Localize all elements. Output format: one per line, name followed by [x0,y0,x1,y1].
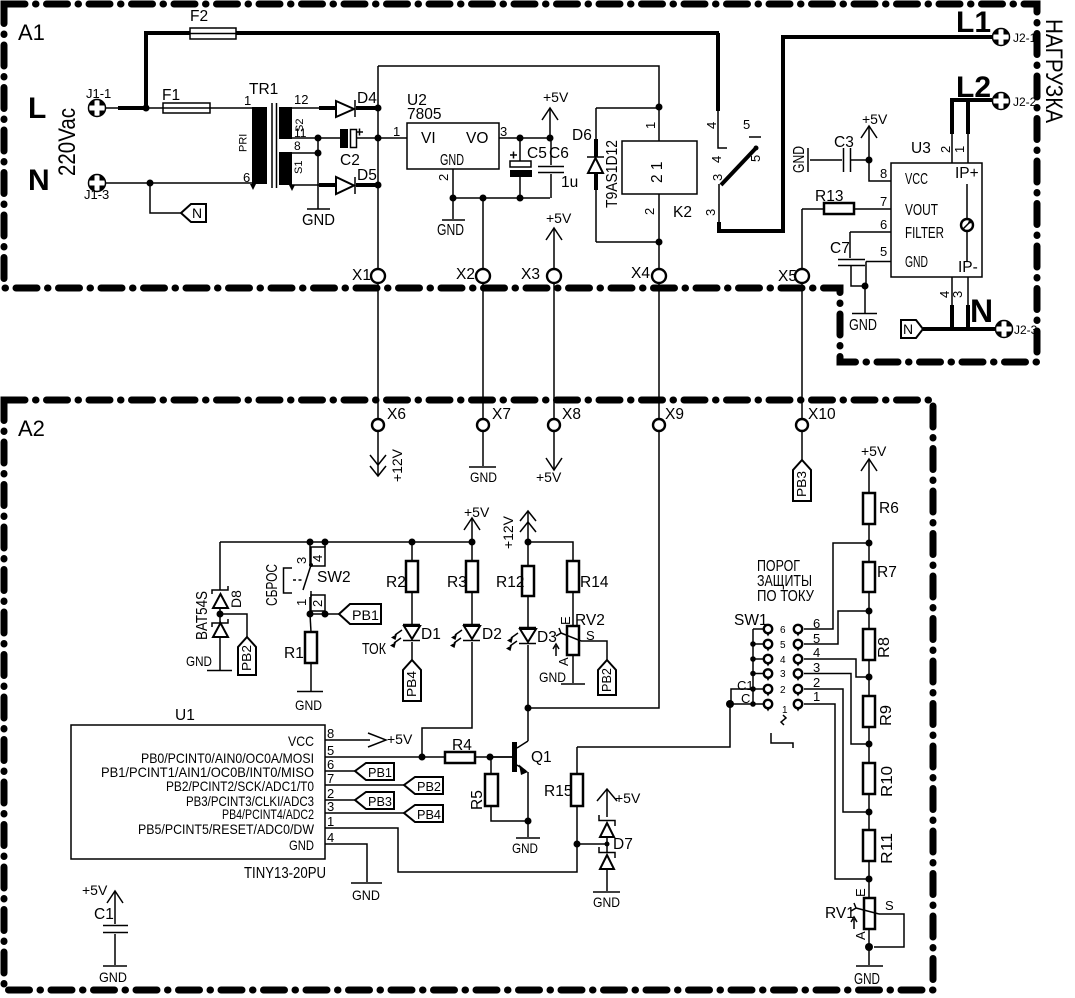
wire D2 to R4 node [422,642,472,757]
svg-text:PB5/PCINT5/RESET/ADC0/DW: PB5/PCINT5/RESET/ADC0/DW [138,821,315,837]
svg-text:IP+: IP+ [955,165,979,182]
U1 pin2 wire [325,799,355,801]
svg-text:7: 7 [327,771,334,786]
svg-text:GND: GND [593,894,620,910]
svg-text:PB4: PB4 [404,671,419,697]
+5V arrow at U2 output [549,109,551,138]
ground under X7 [482,431,484,466]
thick wire relay common to L1 output [719,37,993,231]
svg-text:X4: X4 [631,265,650,282]
svg-text:GND: GND [440,152,464,169]
svg-text:VI: VI [421,130,436,147]
svg-text:D2: D2 [482,626,502,643]
relay K2 contact pin4 [716,33,720,111]
svg-text:X3: X3 [521,266,540,283]
thick wire J2-2 to U3 IP+ pins [950,98,992,102]
svg-text:BAT54S: BAT54S [194,591,211,640]
ground at C3 [807,148,809,172]
resistor R6 [863,493,875,524]
resistor R10 [863,763,875,794]
LED D3 [527,596,529,627]
svg-text:GND: GND [352,887,380,903]
resistor R15 [576,747,578,774]
svg-text:1: 1 [952,146,967,153]
svg-text:ТОК: ТОК [362,641,386,658]
svg-text:5: 5 [880,244,887,259]
LED D2 [471,542,473,624]
svg-text:PB2: PB2 [599,668,614,692]
svg-text:1: 1 [643,122,658,129]
U1 pin4 ground [325,844,367,882]
svg-text:C1: C1 [94,906,114,923]
svg-text:2: 2 [642,208,657,215]
TR1 pin arrows [250,184,256,190]
svg-text:R2: R2 [386,574,406,591]
wire F2 to relay pin4 [236,31,719,35]
svg-text:4: 4 [310,555,325,562]
svg-text:D8: D8 [228,590,244,608]
diode D5 [319,183,336,187]
svg-text:PB3: PB3 [368,794,392,809]
svg-text:SW1: SW1 [734,612,768,629]
fuse F2 [190,28,236,39]
svg-text:PB1: PB1 [368,765,392,780]
flag PB2 at RV2 [598,660,616,695]
svg-text:+5V: +5V [464,504,490,520]
ground under TR1 [307,208,330,210]
svg-text:N: N [970,293,993,329]
svg-text:RV1: RV1 [825,905,855,922]
resistor R1 [310,614,311,632]
svg-text:1: 1 [327,814,334,829]
U2 pin1 wire [378,137,407,139]
svg-text:3: 3 [710,174,725,181]
connector J1-3 [88,174,106,192]
svg-text:2: 2 [813,675,820,690]
+5V down arrow under X8 [553,431,555,469]
U3 IP- pins 4,3 [952,277,968,305]
svg-text:GND: GND [539,669,566,685]
svg-text:GND: GND [791,146,808,173]
svg-text:8: 8 [880,166,887,181]
svg-text:5: 5 [743,117,750,132]
svg-text:VOUT: VOUT [905,202,938,219]
svg-text:5: 5 [780,640,786,651]
svg-text:N: N [28,164,50,197]
U3 internal sensor symbol [966,184,968,262]
svg-text:D7: D7 [613,836,633,853]
svg-text:8: 8 [294,139,301,153]
svg-text:220Vac: 220Vac [54,108,81,176]
U1 pin8 +5V arrow [325,739,370,741]
svg-text:1: 1 [813,689,820,704]
svg-text:L1: L1 [956,6,991,39]
svg-text:C5: C5 [527,145,547,162]
svg-text:7805: 7805 [407,106,441,123]
svg-text:6: 6 [880,217,887,232]
svg-text:PB4/PCINT4/ADC2: PB4/PCINT4/ADC2 [222,806,314,822]
dual diode D8 BAT54S [219,542,221,670]
U1 pin5 wire to R4 [325,756,445,758]
svg-text:3: 3 [703,209,718,216]
flag PB4 at D1 [411,642,413,660]
svg-text:1u: 1u [561,174,578,191]
wire TR1 pin12 to D4 [292,107,319,109]
svg-text:C2: C2 [340,152,360,169]
resistor R11 [863,830,875,861]
svg-text:U3: U3 [911,140,931,157]
svg-text:X7: X7 [492,406,511,423]
svg-text:R7: R7 [877,564,897,581]
svg-text:4: 4 [709,156,724,163]
flag PB2 at D8 [220,614,247,637]
svg-text:12: 12 [294,92,308,107]
node X2 [482,198,484,269]
svg-text:GND: GND [289,837,314,853]
LED D1 [411,592,413,624]
svg-text:TINY13-20PU: TINY13-20PU [244,865,326,882]
svg-text:C7: C7 [830,240,850,257]
svg-text:C6: C6 [549,145,569,162]
U2 pin2 to ground [452,169,454,219]
resistor R2 [411,542,413,561]
svg-text:A: A [556,657,571,666]
svg-text:+5V: +5V [387,731,413,747]
U3 pin5 GND wire [866,262,891,287]
svg-text:PRI: PRI [238,134,250,152]
svg-text:VCC: VCC [288,733,314,749]
svg-text:R9: R9 [878,705,895,726]
flag N [181,204,206,222]
U3 pin6 FILTER wire [850,232,891,258]
svg-text:S1: S1 [293,161,305,174]
svg-text:GND: GND [186,653,212,669]
transistor Q1 [490,756,512,758]
wire SW1 pos5 to R7/R8 [804,611,869,644]
svg-text:+12V: +12V [389,448,405,482]
svg-text:VCC: VCC [905,171,928,188]
svg-text:СБРОС: СБРОС [264,564,281,606]
+5V pull-up bus [220,541,472,543]
svg-text:GND: GND [302,212,335,229]
wire F1 to TR1 pin1 [210,107,252,109]
capacitor C6 1u [550,138,552,198]
svg-text:GND: GND [470,469,497,485]
svg-text:3: 3 [950,291,965,298]
svg-text:2: 2 [938,146,953,153]
svg-text:J1-1: J1-1 [86,86,111,101]
+12V down arrow under X6 [377,431,379,476]
svg-text:X6: X6 [387,406,406,423]
svg-text:R14: R14 [580,574,609,591]
connector J1-1 [88,99,106,117]
svg-text:GND: GND [905,254,928,271]
svg-text:7: 7 [880,194,887,209]
svg-text:J2-3: J2-3 [1014,323,1038,337]
connector J2-3 [995,320,1013,338]
svg-text:GND: GND [295,697,322,713]
svg-text:R6: R6 [879,500,899,517]
svg-text:N: N [903,321,913,337]
svg-text:1: 1 [244,93,251,108]
svg-text:+5V: +5V [82,882,108,898]
wire D3 down to collector node [527,645,529,708]
wire SW1 pos6 to R6/R7 [804,543,869,629]
svg-text:D1: D1 [421,626,441,643]
svg-text:4: 4 [813,645,820,660]
wire J1-1 to fuse F1 [105,107,118,109]
svg-text:3: 3 [327,799,334,814]
svg-text:T9AS1D12: T9AS1D12 [604,140,621,208]
diode D6 T9AS1D12 [596,108,659,242]
resistor R5 [490,757,492,774]
U1 pin6 wire [325,770,355,772]
capacitor C2 [318,137,340,139]
svg-text:IP-: IP- [958,259,978,276]
relay coil K2 [656,104,663,111]
flag PB1 at U1 [355,763,394,780]
svg-text:R11: R11 [879,833,896,864]
resistor R9 [863,696,875,727]
ground under RV2 [572,655,574,683]
ground under Q1 [527,821,529,837]
svg-text:PB3: PB3 [794,471,809,497]
wire X9 down to Q1 collector node [528,431,659,708]
svg-text:+5V: +5V [546,210,572,226]
svg-text:5: 5 [327,743,334,758]
U1 pin1 RESET wire [325,828,577,872]
connector J2-2 [992,92,1010,110]
ground under D7 [606,869,608,891]
svg-text:+12V: +12V [500,515,516,549]
svg-text:D5: D5 [357,167,377,184]
flag PB2 at U1 [404,777,443,794]
svg-text:6: 6 [327,757,334,772]
svg-text:3: 3 [780,669,786,680]
U3 pin8 VCC wire [866,157,873,164]
wire thick riser to F2 [146,33,190,108]
svg-text:X2: X2 [456,266,475,283]
svg-text:R10: R10 [879,766,896,797]
svg-text:2: 2 [780,685,786,696]
wire rectifier to K2 coil top [378,66,659,141]
svg-text:F2: F2 [190,8,208,25]
svg-text:GND: GND [854,971,880,988]
svg-text:8: 8 [327,726,334,741]
svg-text:U1: U1 [175,707,195,724]
svg-text:Q1: Q1 [531,749,552,766]
svg-text:+5V: +5V [861,443,887,459]
svg-text:R1: R1 [284,645,304,662]
svg-text:TR1: TR1 [249,81,278,98]
wire SW2 to PB1 and R1 [310,613,339,615]
svg-text:2: 2 [436,174,451,181]
U1 pin3 wire [325,812,404,814]
svg-text:PB2: PB2 [239,645,254,671]
svg-text:X9: X9 [665,406,684,423]
svg-text:J1-3: J1-3 [84,187,109,202]
svg-text:3: 3 [294,557,309,564]
svg-text:PB2/PCINT2/SCK/ADC1/T0: PB2/PCINT2/SCK/ADC1/T0 [166,778,314,794]
U2 pin3 wire [499,137,550,139]
wire TR1 center tap [292,138,318,209]
svg-text:+5V: +5V [615,790,641,806]
svg-text:2 1: 2 1 [649,161,666,183]
svg-text:A: A [853,931,868,940]
svg-text:+5V: +5V [862,111,888,127]
resistor R7 [863,562,875,592]
svg-text:1: 1 [782,705,788,716]
svg-text:НАГРУЗКА: НАГРУЗКА [1040,19,1067,123]
wire SW1 pos1 to R11/RV1 [804,704,869,879]
connector J2-1 [992,28,1010,46]
resistor R3 [466,561,478,592]
svg-text:4: 4 [327,830,334,845]
ground under R1 [310,663,312,691]
svg-text:6: 6 [780,625,786,636]
pushbutton SW2 [284,568,293,593]
svg-text:J2-2: J2-2 [1013,95,1037,109]
wire to N flag [150,183,181,213]
LED D1 emission arrows [394,630,402,643]
wire SW1 common to R15 [577,704,730,747]
svg-text:N: N [192,205,202,221]
svg-text:A1: A1 [18,20,45,45]
node X1 column wire [377,66,379,269]
capacitor C5 [519,138,521,198]
flag PB3 at U1 [355,792,394,809]
block A2 border [4,400,933,990]
block A1 border [4,4,1037,362]
ground under D8 [207,670,232,672]
svg-text:4: 4 [704,122,719,129]
resistor R14 [567,561,579,592]
svg-text:1: 1 [393,124,400,139]
thick wire to J2-3 [923,327,996,331]
svg-text:X8: X8 [562,406,581,423]
flag PB3 at X10 [801,431,803,460]
flag N output [901,320,923,338]
svg-text:GND: GND [512,840,538,856]
svg-text:GND: GND [437,222,464,239]
svg-text:E: E [558,616,573,625]
wire ground bus under U2 [453,197,550,199]
svg-text:A2: A2 [18,416,45,441]
fuse F1 [146,107,163,109]
flag PB1 [339,604,381,624]
svg-text:6: 6 [243,170,250,185]
svg-text:R15: R15 [544,783,572,800]
svg-text:S: S [586,628,595,643]
svg-text:D4: D4 [357,90,377,107]
ground under RV1 [856,965,883,967]
svg-text:R8: R8 [876,637,893,658]
svg-text:PB2: PB2 [417,779,441,794]
SW1 left bus [752,629,754,704]
svg-text:R5: R5 [469,790,486,810]
wire J1-3 to TR1 pin6 [105,182,252,184]
SW1 contacts [753,625,802,708]
svg-text:L: L [28,92,46,125]
svg-text:E: E [853,888,868,897]
svg-text:D3: D3 [537,629,557,646]
svg-text:K2: K2 [673,204,692,221]
+5V arrow at U3 [868,127,870,160]
diode D4 [319,106,336,110]
svg-text:PB4: PB4 [417,807,441,822]
flag PB4 at U1 [404,805,443,822]
svg-text:VO: VO [466,130,488,147]
svg-text:X1: X1 [352,267,371,284]
svg-text:2: 2 [310,600,325,607]
svg-text:S: S [885,898,894,913]
svg-text:3: 3 [500,124,507,139]
svg-text:GND: GND [99,969,127,985]
svg-text:D6: D6 [572,127,592,144]
relay K2 switch arm [721,148,756,185]
U1 pin7 wire [325,784,404,786]
wire TR1 pin5 to D5 [292,184,319,186]
wire SW1 pos2 to R10/R11 [804,689,869,812]
resistor R8 [863,629,875,660]
svg-text:ПО ТОКУ: ПО ТОКУ [757,588,814,605]
svg-text:X10: X10 [808,406,836,423]
wire SW1 pos3 to R9/R10 [804,674,869,745]
svg-text:GND: GND [849,317,877,334]
svg-text:R3: R3 [447,574,467,591]
svg-text:PB1: PB1 [352,607,379,623]
svg-text:+5V: +5V [536,469,562,485]
svg-text:4: 4 [780,655,786,666]
svg-text:R12: R12 [496,574,524,591]
svg-text:J2-1: J2-1 [1013,31,1037,45]
svg-text:1: 1 [294,599,309,606]
wire SW1 pos4 to R8/R9 [804,659,869,677]
svg-text:+5V: +5V [543,89,569,105]
+12V arrow at R12 [520,511,536,532]
resistor R12 [527,542,529,566]
svg-text:SW2: SW2 [317,569,351,586]
svg-text:FILTER: FILTER [905,225,944,242]
+12V bus to R14 [528,542,573,561]
svg-text:F1: F1 [162,87,180,104]
